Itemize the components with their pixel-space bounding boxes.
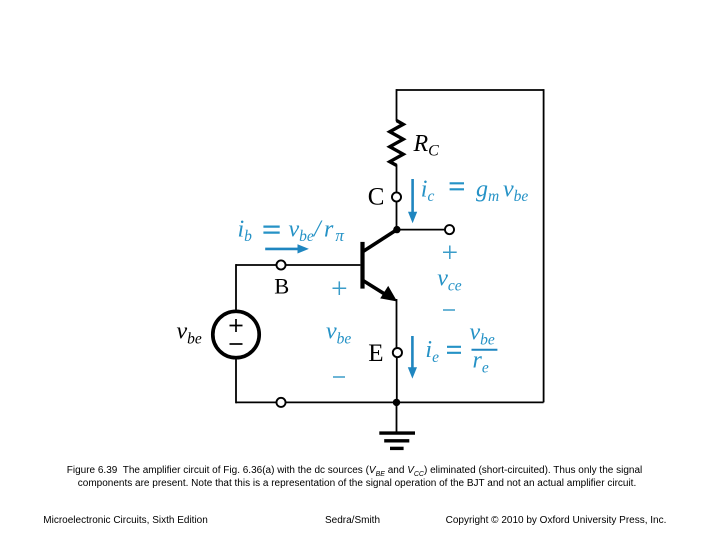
- wire: collector node to output terminal: [397, 229, 445, 231]
- wire: base horizontal: [236, 264, 360, 266]
- source vbe circle: [213, 311, 259, 357]
- label + (vbe polarity): [333, 281, 347, 295]
- wire: RC top lead: [396, 89, 398, 121]
- transistor Q1: emitter arrowhead: [380, 286, 397, 302]
- wire: bottom horizontal rail: [236, 401, 544, 403]
- svg-text:vbe: vbe: [470, 320, 495, 349]
- svg-text:ibvbe/rπ: ibvbe/rπ: [238, 216, 345, 245]
- wire: emitter vertical lower: [396, 357, 398, 402]
- ground bar 3: [390, 447, 404, 450]
- label minus (vce polarity): [443, 309, 455, 311]
- equals sign (ib equation): [263, 227, 279, 233]
- source plus sign: [230, 319, 243, 332]
- wire: right vertical rail: [543, 89, 545, 402]
- terminal: collector output (open circle): [445, 225, 454, 234]
- footer right: [446, 516, 667, 526]
- svg-text:vbe: vbe: [177, 319, 202, 348]
- svg-text:RC: RC: [413, 131, 440, 160]
- wire: RC bottom lead to terminal C: [396, 165, 398, 193]
- label minus (vbe polarity): [333, 376, 345, 378]
- node: emitter-ground junction dot: [393, 399, 400, 406]
- wire: top horizontal (RC top to right rail): [397, 89, 544, 91]
- terminal E (open circle): [393, 348, 402, 357]
- current arrow ic: [411, 179, 414, 215]
- footer center: [325, 516, 380, 526]
- footer left: [43, 516, 208, 526]
- wire: left vertical lower (source to bottom rail): [235, 358, 237, 404]
- ground bar 2: [384, 439, 409, 442]
- equals sign (ie equation): [447, 347, 461, 353]
- svg-text:B: B: [274, 274, 289, 299]
- source minus sign: [230, 343, 243, 345]
- svg-text:icgmvbe: icgmvbe: [421, 176, 529, 205]
- label + (vce polarity): [443, 246, 457, 260]
- wire: emitter vertical upper: [396, 299, 398, 348]
- svg-text:C: C: [368, 184, 385, 211]
- svg-text:vce: vce: [437, 266, 462, 295]
- ground stub: [396, 402, 398, 431]
- terminal: bottom-left (open circle): [276, 398, 285, 407]
- resistor RC zigzag: [390, 121, 403, 166]
- terminal B (open circle): [276, 260, 285, 269]
- current arrow ie: [411, 336, 414, 370]
- terminal C (open circle): [392, 192, 401, 201]
- transistor Q1: collector diagonal: [363, 230, 397, 252]
- transistor Q1 (NPN): base bar: [360, 242, 364, 289]
- wire: left vertical upper (base to source): [235, 264, 237, 311]
- caption line 2: [0, 479, 714, 489]
- svg-text:E: E: [368, 340, 383, 367]
- fraction bar: [472, 349, 498, 351]
- svg-text:ie: ie: [425, 337, 439, 366]
- svg-text:vbe: vbe: [326, 319, 351, 348]
- svg-text:re: re: [473, 348, 489, 377]
- ground bar 1: [379, 431, 415, 434]
- node: collector junction dot: [393, 226, 400, 233]
- current arrow ib: [265, 248, 300, 251]
- transistor Q1: emitter diagonal: [363, 281, 388, 296]
- wire: terminal C to collector node: [396, 202, 398, 230]
- caption line 1: [0, 466, 712, 478]
- equals sign (ic equation): [450, 183, 464, 189]
